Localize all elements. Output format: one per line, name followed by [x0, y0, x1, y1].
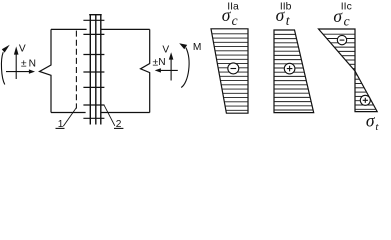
leader for label 1: [63, 108, 76, 127]
tie t5: [83, 86, 104, 88]
rebar bar a: [89, 15, 91, 125]
left moment arc: [1, 52, 4, 84]
IIc upper hatching: [323, 34, 355, 68]
svg-text:c: c: [344, 14, 350, 29]
right normal force arrow N shaft: [161, 69, 178, 71]
left M arrowhead: [2, 45, 10, 53]
left N arrowhead: [29, 69, 35, 73]
IIb hatching: [274, 34, 313, 110]
tie t2: [83, 33, 104, 35]
IIc compression sign (circled minus): [337, 35, 346, 44]
right moment arc M: [181, 48, 189, 88]
svg-text:IIc: IIc: [341, 1, 352, 12]
svg-text:1: 1: [58, 119, 64, 130]
IIc lower hatching: [355, 75, 376, 109]
tie t3: [83, 54, 104, 56]
underline of label 1: [56, 127, 65, 129]
stress diagram IIc lower triangle: [355, 71, 377, 112]
IIa compression sign (circled minus): [228, 63, 239, 74]
svg-text:σ: σ: [276, 5, 286, 25]
svg-text:2: 2: [116, 119, 122, 130]
tie t1: [83, 19, 104, 21]
right shear arrow V shaft: [170, 59, 172, 80]
underline of label 2: [114, 127, 123, 129]
wall top joint edge (gap at bars): [51, 28, 150, 30]
rebar bar c: [100, 15, 102, 125]
IIb tension sign (circled plus): [284, 63, 295, 74]
left shear arrow V shaft: [15, 54, 17, 79]
svg-text:σ: σ: [366, 110, 376, 130]
rebar bar b: [95, 15, 97, 125]
left V arrowhead: [14, 46, 19, 54]
wall panel left edge with break: [40, 29, 52, 112]
IIa hatching: [212, 34, 248, 111]
stress diagram IIa outline: [211, 29, 248, 113]
tie t6: [83, 104, 104, 106]
right M arrowhead: [179, 43, 187, 49]
svg-text:M: M: [193, 42, 202, 53]
left normal force arrow N shaft: [6, 71, 30, 73]
wall panel right edge with break: [141, 29, 150, 112]
svg-text:N: N: [29, 59, 36, 70]
svg-text:V: V: [162, 45, 169, 56]
rebar top cap: [89, 14, 102, 16]
svg-text:±: ±: [21, 59, 27, 70]
svg-text:c: c: [232, 13, 238, 28]
joint centerline (dashed), node 1: [75, 31, 77, 109]
svg-text:σ: σ: [222, 5, 232, 25]
tie t4: [83, 71, 104, 73]
wall bottom joint edge (gap at bars): [51, 112, 150, 114]
right V arrowhead: [169, 52, 174, 59]
stress diagram IIc upper triangle: [319, 29, 356, 71]
leader for label 2: [104, 105, 115, 126]
right N arrowhead: [155, 68, 161, 72]
tie t7: [83, 117, 104, 119]
svg-text:σ: σ: [333, 6, 343, 26]
IIc tension sign (circled plus): [360, 95, 370, 105]
stress diagram IIb outline: [274, 30, 314, 113]
svg-text:N: N: [158, 57, 165, 68]
svg-text:V: V: [19, 44, 26, 55]
